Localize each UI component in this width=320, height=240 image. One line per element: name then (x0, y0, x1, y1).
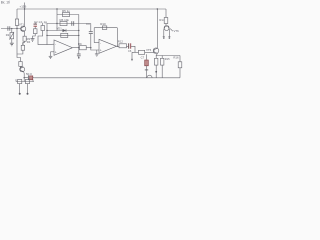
wire VT1 collector to rail (24, 3, 26, 27)
diode VD1 (63, 29, 67, 32)
terminal dot 1 (19, 93, 21, 95)
wire feedback line y14.5 (57, 14, 79, 16)
junction dots (11, 8, 158, 78)
wire feedback2 line (94, 27, 117, 29)
capacitor C8 electrolytic drop (146, 54, 148, 59)
ground (10, 43, 14, 46)
wire VT1 emitter chain (24, 31, 26, 36)
wire C5 to bottom rail (33, 77, 35, 79)
svg-text:R5 1к: R5 1к (62, 9, 70, 13)
svg-text:R15: R15 (165, 57, 170, 61)
resistor R1 (15, 19, 18, 25)
resistor R13 feedback2 (102, 26, 107, 30)
capacitor C6 below output (77, 54, 81, 56)
wire rail right end drop (165, 9, 167, 18)
wire left column down (17, 29, 21, 62)
wire feedback line y23.5 (47, 23, 91, 25)
resistor R9 on y23.5 (60, 21, 67, 25)
wire R1 to base node (16, 25, 18, 28)
op-amp U2 (99, 39, 117, 53)
wire C7 corner to base line (131, 46, 135, 52)
wire opamp2 output (117, 45, 120, 47)
wire emitter resistor row (23, 78, 25, 82)
svg-text:VD1: VD1 (57, 27, 63, 31)
resistor R11 on y35.4 (61, 33, 68, 37)
wire opamp1 minus input (47, 43, 54, 45)
svg-text:R6 10к: R6 10к (60, 18, 70, 22)
resistor R18 (161, 58, 164, 65)
wire VT3 emitter line (156, 53, 180, 55)
resistor R19 (164, 18, 168, 24)
transistor VT3 (153, 48, 159, 54)
svg-text:+15В: +15В (20, 5, 27, 9)
svg-text:C7: C7 (141, 56, 145, 60)
hop arc on bottom rail (147, 75, 152, 78)
wire VT4 leg 1 (163, 29, 165, 36)
ground under opamp1 plus (49, 56, 53, 58)
capacitor C4 (89, 32, 93, 34)
wire VT3 collector to rail (157, 9, 159, 48)
resistor R16 (178, 62, 182, 68)
wire bottom long rail (35, 77, 180, 79)
svg-text:R10: R10 (100, 22, 106, 26)
svg-text:R4: R4 (27, 40, 31, 44)
svg-text:-: - (55, 42, 56, 46)
resistor R10 on y14.5 (63, 12, 70, 16)
wire top supply rail (17, 8, 166, 10)
svg-text:VT1: VT1 (19, 23, 24, 27)
wire feedback vertical left x47 (46, 24, 48, 45)
resistor under C2 (33, 29, 37, 34)
resistor R3 (23, 36, 26, 41)
svg-text:R12: R12 (118, 40, 124, 44)
wire to VT3 base (145, 51, 154, 53)
resistor R5 base of VT2 (19, 62, 22, 67)
ground under C2 (31, 39, 35, 42)
svg-text:C6: C6 (128, 49, 132, 53)
op-amp U1 (54, 40, 73, 55)
wire terminal 1 (19, 84, 21, 94)
capacitor C5 electrolytic (27, 75, 29, 80)
arrow down marker (131, 52, 133, 59)
capacitor C7 (129, 43, 131, 48)
svg-text:R2: R2 (6, 33, 10, 37)
wire input line (1, 28, 21, 30)
resistor R7 (25, 79, 29, 83)
wire output vertical x78.8 (78, 15, 80, 48)
wire opamp1 output (73, 47, 80, 49)
svg-text:VT5: VT5 (146, 48, 152, 52)
wire rail drop left (16, 9, 18, 19)
wire emitter resistor drop 2 (161, 56, 163, 59)
transistor VT2 (20, 66, 22, 68)
wire opamp2 minus (94, 42, 99, 44)
labels (1, 1, 179, 61)
capacitor C2 (34, 24, 38, 26)
wire line y35.4 (47, 34, 79, 36)
wire rail drop x57 (56, 9, 58, 31)
wire R16 to bottom rail (179, 68, 181, 78)
wire C5 stub (32, 80, 34, 82)
svg-text:+: + (100, 49, 102, 53)
transistor VT4 (164, 26, 169, 31)
emitter arrow VT4 (170, 29, 173, 32)
svg-text:R9: R9 (78, 42, 82, 46)
svg-text:+: + (55, 50, 57, 54)
svg-text:50,0: 50,0 (26, 72, 32, 76)
svg-text:R16: R16 (173, 55, 179, 59)
resistor R4 (21, 45, 24, 50)
resistor R8 vertical (42, 23, 44, 26)
wire C4 vertical (90, 24, 92, 32)
svg-text:С2 1,0: С2 1,0 (34, 20, 43, 24)
resistor R12 output (79, 46, 86, 50)
transistor VT1 (21, 26, 26, 31)
svg-text:VT6: VT6 (174, 29, 180, 33)
wire arrow segment (23, 41, 25, 45)
svg-text:R14: R14 (159, 18, 165, 22)
wire feedback2 vertical (93, 28, 95, 43)
red labels (26, 20, 43, 76)
wire R4 down (17, 50, 23, 54)
opamp1 plus input (51, 51, 55, 53)
capacitor C3 on y23.5 (72, 21, 74, 26)
terminal dot 2 (27, 93, 29, 95)
resistor R15 on base line (139, 50, 145, 54)
wire to ground (11, 39, 13, 43)
resistor R2 trimmer (10, 33, 14, 39)
wire R12 to node (86, 47, 91, 49)
opamp signs (55, 41, 102, 54)
svg-text:Вх. 1б: Вх. 1б (1, 1, 10, 5)
svg-text:C4: C4 (86, 22, 90, 26)
ground under opamp2 plus (96, 50, 98, 54)
wire VT4 leg 2 (168, 29, 170, 36)
resistor R6 (18, 79, 22, 83)
wire diode line y30.5 (47, 30, 79, 32)
wire feedback2 right vertical (116, 28, 118, 47)
wire right output branch (179, 56, 181, 62)
wire emitter resistor drop 1 (155, 56, 157, 59)
wire terminal 2 (27, 84, 29, 94)
resistor R14 (119, 44, 127, 48)
wire trimmer drop (11, 29, 13, 33)
svg-text:-: - (100, 41, 101, 45)
resistor R17 (155, 58, 158, 65)
capacitor C1 input coupling (8, 26, 10, 30)
wire R14 to C7 (127, 45, 129, 47)
wire VT2 emitter node (24, 72, 28, 78)
